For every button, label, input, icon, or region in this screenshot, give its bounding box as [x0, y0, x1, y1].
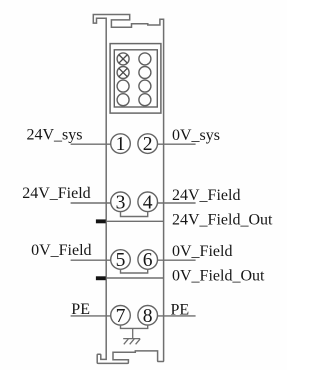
svg-text:0V_Field: 0V_Field	[31, 242, 91, 259]
svg-text:0V_sys: 0V_sys	[172, 127, 220, 144]
svg-text:1: 1	[116, 134, 126, 155]
svg-text:2: 2	[143, 134, 153, 155]
svg-text:24V_sys: 24V_sys	[27, 127, 83, 144]
svg-text:8: 8	[143, 306, 153, 327]
svg-text:PE: PE	[171, 301, 190, 318]
svg-text:PE: PE	[71, 301, 90, 318]
svg-text:3: 3	[116, 192, 126, 213]
svg-text:0V_Field_Out: 0V_Field_Out	[172, 268, 265, 285]
svg-text:4: 4	[143, 192, 153, 213]
svg-text:7: 7	[116, 306, 126, 327]
svg-text:5: 5	[116, 250, 126, 271]
svg-text:24V_Field: 24V_Field	[172, 187, 240, 204]
svg-text:24V_Field_Out: 24V_Field_Out	[172, 211, 273, 228]
svg-text:6: 6	[143, 250, 153, 271]
svg-text:0V_Field: 0V_Field	[172, 243, 232, 260]
svg-text:24V_Field: 24V_Field	[22, 185, 90, 202]
